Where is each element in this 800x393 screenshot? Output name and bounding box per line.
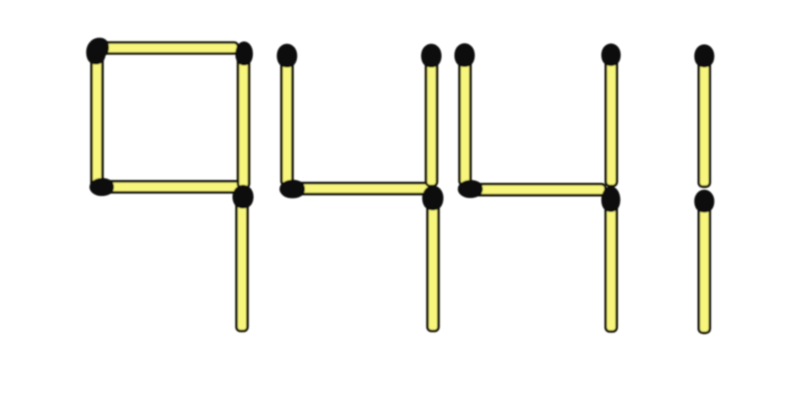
matchstick S4: digit 9, bottom horizontal stick xyxy=(90,178,245,196)
matchstick S13: second digit 4, lower vertical stick xyxy=(601,186,620,331)
matchstick S11: second digit 4, middle horizontal stick xyxy=(458,180,606,198)
matchstick S5: digit 9, tail vertical stick xyxy=(233,185,254,331)
matchstick S15: digit 1, lower vertical stick xyxy=(694,190,714,333)
matchstick S8: first digit 4, right upper vertical stick xyxy=(421,44,441,186)
matchstick S14: digit 1, upper vertical stick xyxy=(694,44,714,186)
matchstick S7: first digit 4, middle horizontal stick xyxy=(280,180,430,199)
matchstick S3: digit 9, right vertical stick xyxy=(235,42,253,188)
matchstick S1: digit 9, top horizontal stick xyxy=(88,38,238,58)
matchstick S6: first digit 4, left vertical stick xyxy=(277,44,297,185)
matchstick S2: digit 9, left vertical stick xyxy=(86,39,106,187)
matchstick S9: first digit 4, lower vertical stick xyxy=(422,185,443,331)
matchstick S10: second digit 4, left vertical stick xyxy=(454,43,474,185)
matchstick S12: second digit 4, right upper vertical stick xyxy=(601,43,620,186)
